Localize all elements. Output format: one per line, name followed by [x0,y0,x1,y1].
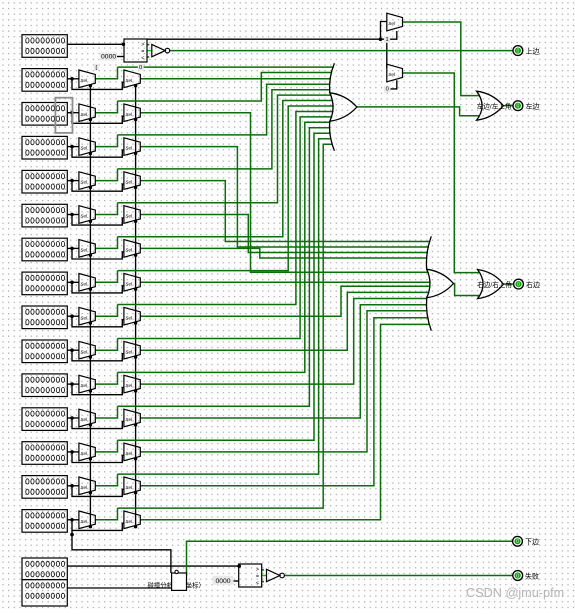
svg-text:Sel: Sel [80,349,88,354]
wire const-0 to mux T2 select [390,80,396,89]
wire mux M7A output elevation [95,237,117,249]
svg-text:Sel: Sel [80,78,88,83]
comparator U2 [239,564,262,587]
wire mux M3A output elevation [95,101,117,113]
wire OR2 output to OR4 input2 [454,284,480,296]
svg-text:0000: 0000 [101,54,116,61]
svg-text:Sel: Sel [125,451,133,456]
wire mux M6A output elevation [95,203,117,215]
wire mux M11A output elevation [95,372,117,384]
mux M13A [79,443,95,461]
node comparator U2 input junction [237,564,241,568]
wire E4 elevated to OR1 input [118,84,331,135]
mux M9A [79,307,95,325]
svg-text:Sel: Sel [125,383,133,388]
mux M3A [79,104,95,122]
wire E6 elevated to OR1 input [118,95,332,203]
mux M8B [124,274,140,292]
wire mux M12A output elevation [95,406,117,418]
mux M5A [79,172,95,190]
wire O15 up to OR2 input [140,324,430,519]
wire comparator U1 lt stub [147,56,149,58]
wire mux M14A output elevation [95,474,117,486]
analysis box [172,573,187,590]
wire E11 elevated to OR1 lower input [118,122,331,372]
wire register R8 output to muxes [67,281,79,283]
svg-text:Sel: Sel [125,214,133,219]
svg-text:右边/右上角: 右边/右上角 [477,280,512,289]
mux T2 [387,64,403,82]
register R1 [22,35,67,58]
node select tap row 5 bus1 [89,186,92,189]
svg-text:Sel: Sel [80,214,88,219]
node select tap row 4 bus2 [134,152,137,155]
mux M7B [124,240,140,258]
node select tap row 15 bus1 [89,525,92,528]
svg-text:=: = [256,574,259,580]
register R6 [22,204,67,227]
mux M7A [79,240,95,258]
wire E7 elevated to OR1 input [118,101,334,237]
svg-text:0: 0 [139,65,142,71]
node select tap row 8 bus1 [89,288,92,291]
mux M6B [124,206,140,224]
register R17 [22,580,67,606]
svg-text:Sel: Sel [125,281,133,286]
node select tap row 3 bus1 [89,118,92,121]
wire mux M10A output elevation [95,339,117,351]
wire O10 up to OR2 input [140,292,429,350]
svg-text:Sel: Sel [80,146,88,151]
wire OR3 output to pin P2 [503,105,513,107]
register R15 [22,510,67,533]
node select tap row 14 bus1 [89,491,92,494]
svg-text:Sel: Sel [125,112,133,117]
svg-text:Sel: Sel [80,417,88,422]
node select tap row 11 bus2 [134,389,137,392]
wire mux M15A output elevation [95,508,117,520]
not gate NOT2 [267,569,280,581]
svg-text:Sel: Sel [80,281,88,286]
wire O9 up to OR2 input [140,286,430,316]
svg-text:Sel: Sel [125,315,133,320]
svg-text:0000: 0000 [215,578,230,585]
svg-text:Sel: Sel [125,146,133,151]
svg-text:<: < [256,580,259,586]
register R4 [22,136,67,159]
svg-text:0: 0 [517,104,520,110]
mux M2B [124,70,140,88]
register R5 [22,170,67,193]
svg-text:0: 0 [516,573,519,579]
wire E12 elevated to OR1 lower input [118,128,331,407]
mux M13B [124,443,140,461]
mux M11B [124,375,140,393]
svg-text:CSDN @jmu-pfm: CSDN @jmu-pfm [466,586,564,600]
svg-text:失败: 失败 [525,571,539,580]
wire row15 column feed to analysis box [72,530,171,573]
node select tap row 9 bus1 [89,321,92,324]
node reg1-comparator junction [122,43,126,47]
mux M14A [79,477,95,495]
wire register R7 output to muxes [67,247,79,249]
svg-text:上边: 上边 [526,46,540,55]
wire OR1 output to OR3 input2 [357,107,479,116]
wire mux T2 output to OR4 input1 [403,73,480,273]
mux M4A [79,138,95,156]
svg-text:Sel: Sel [388,72,396,77]
svg-text:左边/左上角: 左边/左上角 [477,101,512,110]
wire NOT2 output to pin P5 (fail) [285,575,513,577]
mux M5B [124,172,140,190]
wire select branch down to mux T2 input [386,39,388,68]
wire mux T1 output to OR3 input1 [403,22,480,96]
register R8 [22,272,67,295]
svg-text:0: 0 [517,49,520,55]
comparator U1 [124,39,147,62]
wire register R13 output to muxes [67,451,79,453]
node select tap row 12 bus1 [89,423,92,426]
wire O7 down to OR2 input [140,248,427,258]
mux M15B [124,511,140,529]
node row15 feed junction [70,533,74,537]
node select tap row 10 bus1 [89,355,92,358]
wire O8 direct to OR2 [140,281,430,283]
wire comparator top to mux T1 select [147,38,391,40]
wire mux M9A output elevation [95,305,117,317]
wire reg1 to comparator U1 [67,43,124,45]
svg-text:Sel: Sel [80,519,88,524]
node select tap row 10 bus2 [134,355,137,358]
wire O3 down to OR2 input [140,113,428,273]
svg-text:0: 0 [386,87,389,93]
mux M3B [124,104,140,122]
wire const 0000 to comparator U1 [117,56,124,58]
register R14 [22,476,67,499]
constant 0000 (bottom) [213,576,234,585]
register R2 [22,69,67,92]
mux M12A [79,409,95,427]
register R16 [22,558,67,580]
wire E2 direct to OR1 [118,66,334,68]
register R12 [22,408,67,431]
svg-text:Sel: Sel [80,451,88,456]
node select tap row 7 bus1 [89,254,92,257]
node select tap row 12 bus2 [134,423,137,426]
wire register R9 output to muxes [67,315,79,317]
svg-text:Sel: Sel [80,383,88,388]
svg-text:Sel: Sel [125,485,133,490]
wire E15 elevated to OR1 lower input [118,144,333,508]
wire comparator U2 gt stub [262,569,264,571]
svg-text:1: 1 [385,37,388,43]
wire O13 up to OR2 input [140,311,427,452]
wire mux select bus column 1 [89,86,91,527]
mux M2A [79,70,95,88]
mux M15A [79,511,95,529]
svg-text:左边: 左边 [526,102,540,111]
wire O2 direct to OR1 [140,78,330,80]
mux M4B [124,138,140,156]
node select tap row 9 bus2 [134,321,137,324]
node select tap row 2 bus2 [134,84,137,87]
selection rectangle [55,98,72,133]
svg-text:Sel: Sel [125,78,133,83]
constant 1 [384,36,390,43]
constant 0 [384,86,391,93]
node select tap row 2 bus1 [89,84,92,87]
wire OR4 output to pin P3 [503,283,513,285]
svg-text:Sel: Sel [125,248,133,253]
wire register R3 output to muxes [67,112,79,114]
svg-text:>: > [141,42,144,48]
svg-text:右边: 右边 [526,280,540,289]
wire register R12 output to muxes [67,417,79,419]
svg-text:Sel: Sel [125,519,133,524]
or-gate OR4 (right) [478,270,504,299]
wire E5 elevated to OR1 input [118,90,331,169]
svg-text:>: > [256,567,259,573]
mux M10B [124,341,140,359]
wire reg16 output to comparator U2 [67,565,238,567]
mux M8A [79,274,95,292]
pin P1 (top edge) [513,46,523,56]
wire E3 elevated to OR1 input [118,73,333,102]
node select tap row 7 bus2 [134,254,137,257]
pin P4 (bottom edge) [513,536,523,546]
wire reg17 output to analysis box [67,587,171,589]
pin P2 (left edge) [513,101,523,111]
mux M6A [79,206,95,224]
register R9 [22,306,67,329]
wire E13 elevated to OR1 lower input [118,133,331,440]
wire O11 up to OR2 input [140,299,427,385]
wire E10 elevated to OR1 lower input [118,117,333,339]
wire register R4 output to muxes [67,146,79,148]
wire mux M8A output elevation [95,271,117,283]
wire O12 up to OR2 input [140,305,427,418]
register R7 [22,238,67,261]
wire E8 elevated to OR1 input [118,106,334,271]
wire register R10 output to muxes [67,349,79,351]
wire mux M13A output elevation [95,440,117,452]
wire analysis box to pin P4 (bottom) [187,541,513,575]
wire mux select bus column 2 [135,86,137,527]
node select tap row 13 bus1 [89,457,92,460]
svg-text:Sel: Sel [80,180,88,185]
mux M12B [124,409,140,427]
wire comparator U2 equal stub [261,575,266,577]
or-gate OR3 (left) [477,91,504,120]
register R13 [22,442,67,465]
label glyph mux M2A [94,64,99,71]
wire E9 elevated to OR1 lower input [118,112,334,305]
svg-text:Sel: Sel [125,180,133,185]
wire register R15 output to muxes [67,519,79,521]
wire mux M4A output elevation [95,135,117,147]
svg-text:0: 0 [517,282,520,288]
wire E14 elevated to OR1 lower input [118,139,332,474]
node select tap row 6 bus1 [89,220,92,223]
mux M11A [79,375,95,393]
svg-text:Sel: Sel [125,349,133,354]
node select tap row 14 bus2 [134,491,137,494]
wire mux M2A output elevation [95,67,117,79]
svg-text:Sel: Sel [80,485,88,490]
wire register R2 output to muxes [67,78,79,80]
wire O5 down to OR2 input [140,181,430,242]
svg-text:Sel: Sel [80,248,88,253]
node select tap row 15 bus2 [134,525,137,528]
wire select branch up to mux T1 input [381,22,387,40]
svg-text:Sel: Sel [125,417,133,422]
svg-text:Sel: Sel [80,315,88,320]
or-gate OR2 (multi-input) [426,236,431,269]
wire comparator U2 lt stub [262,581,264,583]
register R3 [22,103,67,126]
node select tap row 3 bus2 [134,118,137,121]
mux M14B [124,477,140,495]
wire O6 down to OR2 input [140,215,428,253]
mux M9B [124,307,140,325]
label glyph mux M2B [138,64,144,71]
wire comparator U1 equal stub [147,50,152,52]
wire const 0000 to comparator U2 [234,580,239,582]
not gate NOT1 [152,44,165,56]
svg-text:Sel: Sel [388,21,396,26]
svg-text:下边: 下边 [525,537,539,546]
svg-text:0: 0 [516,539,519,545]
node select tap row 11 bus1 [89,389,92,392]
node T-junction on select wire [379,37,383,41]
wire register R11 output to muxes [67,383,79,385]
wire register R14 output to muxes [67,485,79,487]
wire comparator U1 gt stub [147,44,149,46]
wire NOT1 output to pin P1 [170,50,513,52]
wire O4 down to OR2 input [140,147,429,247]
wire mux M5A output elevation [95,169,117,181]
wire O14 up to OR2 input [140,318,428,486]
svg-text:=: = [141,49,144,55]
node select tap row 5 bus2 [134,186,137,189]
register R11 [22,374,67,397]
wire register R6 output to muxes [67,214,79,216]
svg-text:Sel: Sel [80,112,88,117]
mux T1 [387,13,403,31]
pin P3 (right edge) [514,279,524,289]
wire mux T1 select stub [390,31,396,39]
constant 0000 (top) [100,53,117,61]
node select tap row 6 bus2 [134,220,137,223]
pin P5 (fail) [513,571,523,581]
node select tap row 8 bus2 [134,288,137,291]
wire register R5 output to muxes [67,180,79,182]
node select tap row 4 bus1 [89,152,92,155]
or-gate OR1 (multi-input) [330,63,335,93]
svg-text:<: < [141,55,144,61]
mux M10A [79,341,95,359]
node select tap row 13 bus2 [134,457,137,460]
register R10 [22,340,67,363]
